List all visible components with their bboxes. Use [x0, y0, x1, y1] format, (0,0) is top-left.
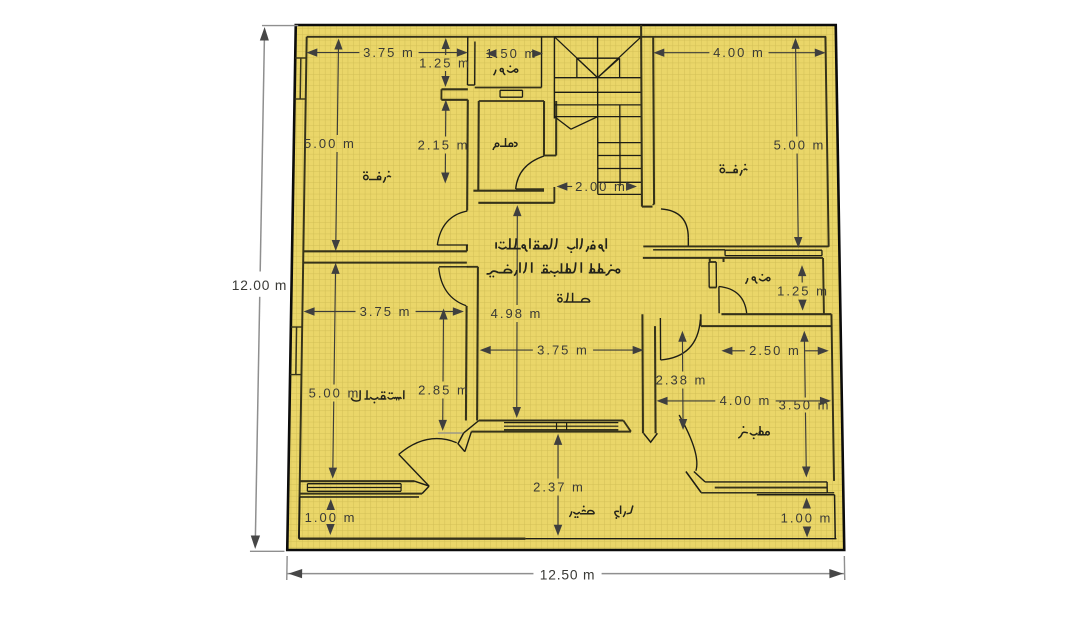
svg-text:12.50 m: 12.50 m [540, 568, 595, 583]
svg-text:3.50 m: 3.50 m [779, 398, 831, 413]
svg-text:1.00 m: 1.00 m [305, 510, 357, 525]
svg-text:4.98 m: 4.98 m [491, 306, 543, 321]
svg-text:5.00 m: 5.00 m [309, 386, 361, 401]
svg-text:1.25 m: 1.25 m [777, 284, 829, 299]
svg-text:12.00 m: 12.00 m [232, 278, 287, 293]
svg-text:3.75 m: 3.75 m [537, 342, 589, 357]
svg-text:5.00 m: 5.00 m [304, 136, 356, 151]
svg-text:5.00 m: 5.00 m [774, 138, 826, 153]
svg-text:1.50 m: 1.50 m [486, 46, 538, 61]
svg-text:2.85 m: 2.85 m [418, 383, 470, 398]
svg-text:2.50 m: 2.50 m [749, 343, 801, 358]
svg-text:2.37 m: 2.37 m [533, 480, 585, 495]
svg-text:1.25 m: 1.25 m [419, 56, 471, 71]
svg-text:1.00 m: 1.00 m [781, 511, 833, 526]
svg-text:3.75 m: 3.75 m [360, 304, 412, 319]
svg-text:2.15 m: 2.15 m [418, 138, 470, 153]
svg-text:2.38 m: 2.38 m [656, 373, 708, 388]
svg-text:3.75 m: 3.75 m [363, 45, 415, 60]
svg-text:4.00 m: 4.00 m [713, 45, 765, 60]
svg-text:4.00 m: 4.00 m [720, 393, 772, 408]
svg-text:2.00 m: 2.00 m [575, 179, 627, 194]
